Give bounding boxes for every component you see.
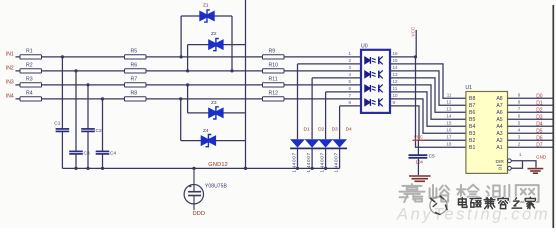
svg-text:5: 5 — [518, 121, 521, 126]
svg-text:9: 9 — [393, 100, 396, 105]
svg-text:10: 10 — [393, 93, 399, 98]
junction Z1/row1 — [180, 55, 183, 58]
diode D1 1N4007 — [290, 126, 310, 172]
svg-text:1: 1 — [519, 152, 522, 157]
optocoupler U0 body — [361, 50, 390, 113]
U1 right pin 4 wire to D5 — [508, 132, 553, 134]
svg-text:B8: B8 — [469, 96, 475, 102]
svg-text:B2: B2 — [469, 138, 475, 144]
svg-text:D2: D2 — [536, 108, 543, 114]
svg-text:15: 15 — [446, 121, 452, 126]
svg-text:17: 17 — [446, 135, 452, 140]
schematic sheet border — [552, 5, 554, 228]
svg-text:Z2: Z2 — [211, 31, 217, 37]
svg-text:R11: R11 — [269, 76, 278, 82]
svg-text:11: 11 — [447, 93, 452, 98]
svg-text:16: 16 — [446, 128, 452, 133]
svg-text:IN2: IN2 — [6, 66, 14, 72]
wire opto pin13 to U1 pin13 — [390, 78, 466, 112]
svg-text:12: 12 — [393, 79, 399, 84]
junction VCC/B1 — [414, 55, 417, 58]
svg-text:R4: R4 — [26, 90, 33, 96]
rail junction — [74, 167, 77, 170]
svg-text:C4: C4 — [110, 151, 116, 157]
svg-text:IN1: IN1 — [6, 52, 14, 58]
resistor R9 — [263, 55, 285, 59]
svg-text:Y08U75B: Y08U75B — [205, 183, 228, 189]
wire Z3 horizontal — [188, 112, 246, 114]
rail junction — [311, 167, 314, 170]
U1 right pin 8 wire to D1 — [508, 104, 553, 106]
svg-text:VCC: VCC — [410, 26, 415, 36]
svg-text:D1: D1 — [304, 126, 310, 132]
svg-text:6: 6 — [348, 86, 351, 91]
wire Z1 horizontal — [181, 15, 232, 17]
gas discharge tube Y08U75B — [184, 168, 227, 210]
svg-text:C5: C5 — [429, 153, 435, 159]
wire VCC to C5 — [417, 140, 419, 155]
resistor R7 — [125, 83, 147, 87]
svg-text:18: 18 — [446, 142, 452, 147]
wire Z bus vertical to rail — [245, 0, 247, 168]
svg-text:8: 8 — [348, 100, 351, 105]
svg-text:C1: C1 — [54, 121, 60, 127]
rail junction — [244, 167, 247, 170]
ground symbol at C5 — [409, 176, 431, 181]
svg-text:4: 4 — [518, 128, 521, 133]
svg-text:11: 11 — [393, 86, 398, 91]
svg-text:D6: D6 — [536, 136, 543, 142]
svg-text:15: 15 — [393, 58, 399, 63]
vertical branch C1 — [61, 57, 63, 129]
junction row3/C-branch — [86, 83, 89, 86]
capacitor C4 — [96, 151, 117, 157]
wire opto pin6 to D3 — [326, 91, 361, 93]
svg-text:B7: B7 — [469, 103, 475, 109]
svg-text:DDD: DDD — [193, 211, 206, 217]
capacitor C5 104 — [409, 153, 436, 164]
wire row 3 — [16, 84, 362, 86]
svg-text:A7: A7 — [496, 103, 502, 109]
resistor R2 — [20, 69, 42, 73]
svg-text:14: 14 — [393, 65, 399, 70]
svg-text:1N4007: 1N4007 — [319, 152, 324, 172]
svg-text:VCC: VCC — [414, 134, 423, 139]
svg-text:C3: C3 — [84, 151, 90, 157]
svg-text:R8: R8 — [131, 90, 138, 96]
svg-text:IN4: IN4 — [6, 94, 14, 100]
junction row2/C-branch — [74, 69, 77, 72]
svg-text:B1: B1 — [469, 145, 475, 151]
svg-text:A4: A4 — [496, 124, 502, 130]
svg-text:13: 13 — [446, 107, 452, 112]
capacitor C1 — [54, 121, 69, 132]
TVS diode Z1 — [199, 3, 214, 23]
svg-text:2: 2 — [348, 58, 351, 63]
vertical branch C3 — [75, 71, 77, 151]
svg-text:12: 12 — [446, 100, 452, 105]
wire DIR/G to GND — [511, 161, 536, 168]
wire Z4 horizontal — [181, 140, 246, 142]
svg-text:5: 5 — [348, 79, 351, 84]
wire Z3 left vertical — [187, 85, 189, 113]
rail junction — [324, 167, 327, 170]
svg-text:B6: B6 — [469, 110, 475, 116]
opto channel 3 symbol — [365, 84, 383, 92]
svg-text:GND: GND — [536, 155, 547, 160]
svg-text:A1: A1 — [496, 145, 502, 151]
rail junction — [192, 167, 195, 170]
resistor R1 — [20, 55, 42, 59]
svg-text:DIR: DIR — [496, 159, 505, 165]
GND12 rail wire — [62, 167, 339, 169]
junction Z1/row2 — [230, 69, 233, 72]
svg-text:R3: R3 — [26, 76, 33, 82]
TVS diode Z2 — [208, 31, 223, 51]
U1 right pin 2 wire to D7 — [508, 146, 553, 148]
vertical branch C2 — [87, 85, 89, 129]
svg-text:Z3: Z3 — [211, 100, 217, 106]
svg-text:3: 3 — [348, 65, 351, 70]
svg-text:R1: R1 — [26, 48, 33, 54]
TVS diode Z4 — [201, 128, 216, 147]
svg-text:R7: R7 — [131, 76, 138, 82]
wire opto pin4 to D2 — [312, 77, 361, 79]
svg-text:C2: C2 — [96, 128, 102, 134]
svg-text:1N4007: 1N4007 — [291, 152, 296, 172]
resistor R10 — [263, 69, 285, 73]
svg-text:1N4007: 1N4007 — [333, 152, 338, 172]
svg-text:R10: R10 — [269, 62, 279, 68]
opto channel 2 symbol — [365, 70, 383, 78]
svg-text:7: 7 — [348, 93, 351, 98]
wire Z1 right vertical — [231, 16, 233, 71]
svg-text:A2: A2 — [496, 138, 502, 144]
junction row1/C-branch — [61, 55, 64, 58]
svg-text:D4: D4 — [346, 126, 352, 132]
wire row 1 — [16, 56, 362, 58]
watermark badge text dianci-jianrong-zhijia — [459, 198, 467, 208]
resistor R6 — [125, 69, 147, 73]
wire VCC net to U1 pin18 (B1 tied high) — [416, 57, 466, 147]
ground symbol at U1 — [528, 169, 544, 174]
svg-text:104: 104 — [416, 160, 424, 165]
svg-text:B3: B3 — [469, 131, 475, 137]
junction Z3/row3 — [186, 83, 189, 86]
svg-text:3: 3 — [518, 135, 521, 140]
svg-text:9: 9 — [518, 93, 521, 98]
svg-text:14: 14 — [446, 114, 452, 119]
svg-text:G: G — [498, 166, 502, 172]
TVS diode Z3 — [208, 100, 223, 119]
wire Z2 horizontal — [188, 44, 246, 46]
watermark big text jiayu-jianceweng — [400, 184, 425, 202]
rail junction — [296, 167, 299, 170]
capacitor C2 — [81, 128, 102, 134]
svg-text:B4: B4 — [469, 124, 475, 130]
svg-text:1: 1 — [348, 51, 351, 56]
svg-text:13: 13 — [393, 72, 399, 77]
junction Z2/row2 — [186, 69, 189, 72]
wire row 4 — [16, 98, 362, 100]
svg-text:D2: D2 — [318, 126, 324, 132]
U1 right pin 5 wire to D4 — [508, 125, 553, 127]
wire Z2 left vertical — [187, 45, 189, 71]
resistor R4 — [20, 97, 42, 101]
svg-text:GND12: GND12 — [208, 162, 228, 168]
U1 right pin 6 wire to D3 — [508, 118, 553, 120]
svg-text:7: 7 — [518, 107, 521, 112]
svg-text:D5: D5 — [536, 129, 543, 135]
wire row 2 — [16, 70, 362, 72]
vertical branch C4 — [102, 99, 104, 151]
U1 right pin 9 wire to D0 — [508, 97, 553, 99]
wire opto pin10 to U1 pin16 — [390, 99, 466, 133]
wire opto pin12 to U1 pin14 — [390, 85, 466, 119]
svg-text:B5: B5 — [469, 117, 475, 123]
svg-text:R6: R6 — [131, 62, 138, 68]
IC U1 body — [466, 92, 508, 174]
resistor R5 — [125, 55, 147, 59]
svg-text:IN3: IN3 — [6, 80, 14, 86]
U1 right pin 7 wire to D2 — [508, 111, 553, 113]
diode D3 1N4007 — [318, 126, 338, 172]
junction Z4/row4 — [179, 97, 182, 100]
junction row4/C-branch — [101, 97, 104, 100]
svg-text:D3: D3 — [332, 126, 338, 132]
wire C5 to ground — [417, 158, 419, 175]
svg-text:D3: D3 — [536, 115, 543, 121]
svg-text:D0: D0 — [536, 94, 543, 100]
resistor R3 — [20, 83, 42, 87]
svg-text:A8: A8 — [496, 96, 502, 102]
svg-text:D1: D1 — [536, 101, 543, 107]
svg-text:U1: U1 — [465, 85, 472, 91]
U1 right pin 3 wire to D6 — [508, 139, 553, 141]
wire Z4 left vertical — [180, 99, 182, 141]
resistor R12 — [263, 97, 285, 101]
svg-text:6: 6 — [518, 114, 521, 119]
wire opto pin2 to D1 — [298, 63, 362, 65]
wire opto pin16 to VCC — [390, 56, 416, 58]
watermark badge logo — [430, 196, 447, 215]
rail junction — [101, 167, 104, 170]
svg-text:4: 4 — [348, 72, 351, 77]
rail junction — [86, 167, 89, 170]
svg-text:R12: R12 — [269, 90, 279, 96]
svg-text:Z4: Z4 — [203, 128, 209, 134]
wire opto pin15 to U1 pin11 — [390, 64, 466, 98]
resistor R11 — [263, 83, 285, 87]
wire opto pin11 to U1 pin15 — [390, 92, 466, 126]
wire Z1 left vertical — [180, 16, 182, 57]
opto channel 4 symbol — [365, 98, 383, 106]
resistor R8 — [125, 97, 147, 101]
wire opto pin9 to U1 pin17 — [390, 106, 466, 140]
svg-text:2: 2 — [518, 142, 521, 147]
svg-text:R5: R5 — [131, 48, 138, 54]
svg-text:1N4007: 1N4007 — [306, 152, 311, 172]
svg-text:A3: A3 — [496, 131, 502, 137]
wire opto pin14 to U1 pin12 — [390, 71, 466, 105]
diode D4 1N4007 — [332, 126, 352, 172]
svg-text:U0: U0 — [361, 43, 368, 49]
svg-text:A6: A6 — [496, 110, 502, 116]
svg-text:R2: R2 — [26, 62, 33, 68]
svg-text:R9: R9 — [269, 48, 276, 54]
svg-text:16: 16 — [393, 51, 399, 56]
opto channel 1 symbol — [365, 56, 383, 64]
svg-text:A5: A5 — [496, 117, 502, 123]
svg-text:D7: D7 — [536, 143, 543, 149]
diode D2 1N4007 — [305, 126, 325, 172]
svg-text:D4: D4 — [536, 122, 543, 128]
capacitor C3 — [69, 151, 90, 157]
svg-text:8: 8 — [518, 100, 521, 105]
wire opto pin8 to D4 — [340, 105, 361, 107]
svg-text:Z1: Z1 — [203, 3, 209, 9]
